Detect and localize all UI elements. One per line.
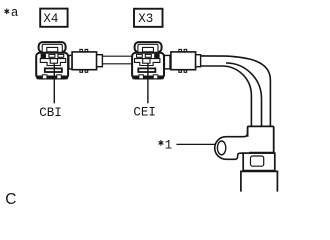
svg-text:X4: X4	[43, 12, 58, 26]
svg-text:X3: X3	[138, 12, 153, 26]
svg-text:C: C	[5, 191, 16, 208]
svg-text:CEI: CEI	[133, 106, 156, 120]
svg-text:1: 1	[165, 138, 173, 152]
svg-text:CBI: CBI	[39, 106, 62, 120]
svg-text:a: a	[11, 6, 19, 20]
